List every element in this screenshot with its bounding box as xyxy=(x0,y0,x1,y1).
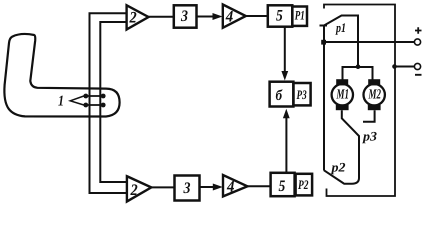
svg-text:p2: p2 xyxy=(330,160,346,175)
svg-text:p3: p3 xyxy=(362,129,378,144)
relay P1 box xyxy=(292,7,307,26)
wire box3 to amp4 with arrowhead (bottom) xyxy=(200,186,216,188)
contact dot bottom-left xyxy=(83,103,88,108)
svg-text:2: 2 xyxy=(130,182,138,199)
op-amp 2 (top amplifier) xyxy=(127,5,149,29)
block 5 (bottom) xyxy=(271,173,295,196)
svg-text:5: 5 xyxy=(279,178,286,195)
svg-text:1: 1 xyxy=(58,94,64,110)
junction plus bus / left bus xyxy=(321,40,326,45)
arrowhead into block 6 bottom xyxy=(283,109,290,119)
op-amp 4 (bottom amplifier) xyxy=(223,175,247,196)
motor M1 brush cap bottom xyxy=(336,105,349,110)
minus terminal xyxy=(414,63,420,69)
wire amp2 to box3 (top) xyxy=(149,16,174,18)
svg-text:2: 2 xyxy=(129,10,137,27)
wire: minus tap xyxy=(395,66,415,68)
relay P2 box xyxy=(296,174,313,196)
wire: M2 lower lead xyxy=(363,110,375,122)
wire from box5 bottom up to block 6 xyxy=(285,118,287,173)
contact p1 fixed tick xyxy=(320,25,328,27)
contact dot top-right xyxy=(101,94,106,99)
wiper arrow of sensor 1 xyxy=(70,96,84,105)
contact p3 blade from M1 xyxy=(342,110,359,184)
contact dot bottom-right xyxy=(101,103,106,108)
wire A: left sensor wire to top and bottom amplifiers xyxy=(90,13,127,193)
svg-text:M1: M1 xyxy=(336,87,349,102)
motor M2 xyxy=(364,84,385,105)
power unit border (top, right, bottom with corner ticks) xyxy=(324,5,395,197)
wire: motor top bus xyxy=(343,67,373,80)
node: contact bar top xyxy=(86,95,103,97)
svg-text:3: 3 xyxy=(180,8,188,25)
contact p2 blade xyxy=(324,170,344,183)
wire amp2 to box3 (bottom) xyxy=(151,186,174,188)
relay P3 box xyxy=(293,83,310,105)
junction minus tap xyxy=(392,64,397,69)
wire: left vertical bus xyxy=(323,26,325,171)
svg-text:3: 3 xyxy=(183,180,191,197)
control handle outline (chair-shaped lever) xyxy=(4,34,119,117)
contact dot top-left xyxy=(83,94,88,99)
plus sign xyxy=(415,27,422,34)
junction motor feed xyxy=(356,64,361,69)
block 3 (bottom) xyxy=(175,176,200,201)
block 3 (top) xyxy=(174,5,197,27)
op-amp 2 (bottom amplifier) xyxy=(127,176,151,201)
block 5 (top) xyxy=(268,5,293,26)
wire amp4 to box5 (top) xyxy=(246,15,268,17)
svg-text:4: 4 xyxy=(225,8,233,25)
minus sign xyxy=(415,74,422,76)
node: contact bar bottom xyxy=(86,104,103,106)
motor M2 brush cap bottom xyxy=(368,105,381,110)
block 6 xyxy=(270,82,294,107)
wire box3 to amp4 with arrowhead (top) xyxy=(197,16,216,18)
wire amp4 to box5 (bottom) xyxy=(247,185,270,187)
motor M1 xyxy=(332,84,353,105)
svg-text:M2: M2 xyxy=(368,87,381,102)
wire B: right sensor wire to top and bottom amplifiers xyxy=(100,22,127,182)
arrowhead into block 6 top xyxy=(281,71,288,81)
svg-text:p1: p1 xyxy=(335,20,346,35)
arrowhead into amp 4 (top) xyxy=(213,13,223,20)
motor M1 brush cap top xyxy=(336,79,348,85)
op-amp 4 (top amplifier) xyxy=(223,5,246,28)
svg-text:P3: P3 xyxy=(297,87,308,102)
wire: plus bus xyxy=(322,41,414,43)
svg-text:4: 4 xyxy=(226,179,234,196)
svg-text:P2: P2 xyxy=(298,177,309,192)
contact p1 blade and bridge xyxy=(324,16,358,67)
wire box5 down to block 6 xyxy=(284,27,286,72)
motor M2 brush cap top xyxy=(368,79,380,85)
arrowhead into amp 4 (bottom) xyxy=(213,184,223,191)
svg-text:б: б xyxy=(276,88,283,104)
plus terminal xyxy=(414,39,420,45)
svg-text:5: 5 xyxy=(276,8,283,25)
svg-text:P1: P1 xyxy=(295,8,305,23)
